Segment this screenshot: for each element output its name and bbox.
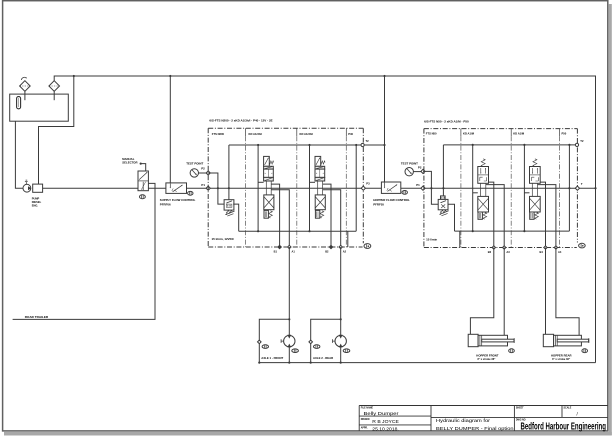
- svg-text:APPR.: APPR.: [361, 427, 368, 430]
- svg-text:AXLE 2 - REAR: AXLE 2 - REAR: [313, 356, 333, 360]
- relief valve block2 inlet: [423, 171, 438, 204]
- tank reservoir: [10, 94, 69, 121]
- hydraulic cylinder hopper rear: [543, 334, 553, 346]
- svg-text:A1: A1: [292, 249, 296, 253]
- svg-text:B2: B2: [325, 249, 329, 253]
- wire block1 return collector: [239, 230, 357, 232]
- svg-text:KD A1/M: KD A1/M: [463, 132, 475, 136]
- title block frame: [359, 406, 608, 431]
- svg-text:P50: P50: [562, 132, 567, 136]
- hydraulic motor M2: [335, 335, 346, 346]
- svg-text:T2: T2: [580, 139, 584, 143]
- wire KD valve 2 work port stubs: [323, 184, 331, 247]
- svg-text:SHEET: SHEET: [516, 408, 524, 410]
- relief valve block1: [224, 200, 234, 210]
- wire block1 T2 drop to return collector: [355, 145, 357, 231]
- check valve motor 2: [309, 340, 313, 344]
- svg-text:R B JOYCE: R B JOYCE: [372, 419, 399, 425]
- svg-text:B3: B3: [488, 250, 492, 254]
- port tag B motor 2: [343, 349, 350, 353]
- svg-text:6/S-FTS N50 - 2 xKD A1/M - P5: 6/S-FTS N50 - 2 xKD A1/M - P50: [424, 119, 469, 123]
- port P1 block2: [421, 186, 425, 190]
- wire KD valve 3 work port stubs: [486, 182, 494, 247]
- solenoid valve KD1 block1: [264, 156, 270, 166]
- port tag cylinder 2: [582, 349, 588, 353]
- svg-text:SCALE: SCALE: [564, 407, 572, 410]
- svg-text:HOPPER FRONT: HOPPER FRONT: [476, 353, 499, 357]
- svg-text:3" x stroke 36": 3" x stroke 36": [552, 357, 571, 361]
- relief valve block1 pilot line: [228, 145, 230, 200]
- hydraulic cylinder hopper front: [468, 334, 478, 346]
- wire bottom return line: [259, 362, 595, 364]
- valve block 1 dividers: [244, 128, 246, 136]
- svg-text:B1: B1: [274, 249, 278, 253]
- svg-text:B4: B4: [540, 250, 544, 254]
- wire KD valve 1 work port stubs: [271, 184, 279, 247]
- wire cylinder 1 cap feed B3: [470, 248, 493, 335]
- wire block2 internal T2 line: [443, 144, 575, 146]
- wire axle motor 1 feed: [288, 247, 290, 335]
- manual selector drain cap: [140, 195, 146, 199]
- svg-text:FTS N200: FTS N200: [212, 132, 225, 136]
- valve block 1 boundary 6/S-FTS N200: [208, 127, 363, 129]
- relief valve block2: [441, 196, 446, 200]
- svg-text:AXLE 1 - FRONT: AXLE 1 - FRONT: [261, 356, 283, 360]
- valve block 2 dividers: [460, 129, 462, 137]
- svg-text:ENG.: ENG.: [32, 203, 39, 207]
- hopper flow control cap: [402, 191, 407, 195]
- wire KD valve 4 left rail: [523, 145, 525, 231]
- svg-text:A3: A3: [506, 250, 510, 254]
- svg-text:P3: P3: [366, 182, 370, 186]
- svg-text:BELLY DUMPER - Final option: BELLY DUMPER - Final option: [436, 426, 514, 432]
- wire return drop to pump unit: [39, 76, 74, 184]
- pump P1 diesel driven: [23, 184, 31, 192]
- svg-text:KD A1/M: KD A1/M: [513, 132, 525, 136]
- svg-text:T2: T2: [366, 139, 370, 143]
- svg-text:SUPPLY FLOW CONTROL: SUPPLY FLOW CONTROL: [160, 198, 196, 202]
- svg-text:P1: P1: [416, 183, 420, 187]
- relief valve block1 inlet: [208, 173, 224, 204]
- test point gauge P2 block1: [190, 169, 198, 177]
- wire KD valve 1 left rail: [257, 145, 259, 231]
- wire block1 drain drop: [347, 231, 349, 247]
- port P1 block1: [206, 186, 210, 190]
- relief valve block1 drain: [233, 204, 239, 231]
- wire cylinder 2 rod feed A4: [556, 248, 579, 336]
- hopper flow control PFRF05: [381, 182, 400, 193]
- port T2 block1: [361, 143, 364, 146]
- port P2 block2: [421, 169, 425, 173]
- port tag A motor 2: [314, 345, 320, 349]
- svg-text:Belly Dumper: Belly Dumper: [364, 411, 399, 417]
- wire block2 drain drop: [459, 231, 461, 247]
- wire supply flow control bypass riser: [169, 76, 171, 183]
- svg-text:DIESEL: DIESEL: [32, 200, 42, 204]
- test point gauge P2 block2: [405, 168, 413, 176]
- svg-text:DRAWN: DRAWN: [361, 418, 370, 421]
- filter breather F1: [20, 81, 31, 92]
- wire KD valve 4 work port stubs: [538, 182, 546, 247]
- drain cap block1 corner: [364, 244, 371, 249]
- port tag A motor 1: [262, 345, 268, 349]
- manual selector lever: [141, 164, 146, 171]
- supply flow control cap: [188, 191, 193, 195]
- port T2 block2: [575, 143, 578, 146]
- svg-text:FTS N50: FTS N50: [426, 132, 437, 136]
- valve KD4 block2: [533, 159, 537, 167]
- svg-text:TEST POINT: TEST POINT: [186, 161, 203, 165]
- svg-text:P2: P2: [201, 166, 205, 170]
- svg-text:KD A1/3h/I: KD A1/3h/I: [249, 132, 263, 136]
- port P3 block1: [361, 186, 365, 190]
- svg-text:TEST POINT: TEST POINT: [401, 161, 418, 165]
- wire KD valve 2 left rail: [309, 145, 311, 231]
- svg-text:FILE NAME: FILE NAME: [361, 407, 374, 410]
- svg-text:3" x stroke 36": 3" x stroke 36": [477, 357, 496, 361]
- wire main pressure line: [43, 187, 578, 189]
- wire block1 internal T2 line: [229, 144, 361, 146]
- svg-text:25.10.2018.: 25.10.2018.: [372, 426, 399, 432]
- wire block2 T2 drop: [568, 145, 570, 231]
- svg-text:HOPPER FLOW CONTROL: HOPPER FLOW CONTROL: [373, 198, 410, 202]
- svg-text:Bedford Harbour Engineering: Bedford Harbour Engineering: [521, 422, 607, 433]
- wire trailer boundary ROAD TRAILER: [13, 183, 155, 319]
- hydraulic motor M1: [284, 335, 295, 346]
- relief valve block2 pilot line: [442, 145, 444, 196]
- wire cylinder 1 rod feed A3: [503, 248, 505, 336]
- relief valve block2 drain: [448, 204, 454, 231]
- svg-text:KD A1/3h/I: KD A1/3h/I: [300, 132, 314, 136]
- tank level gauge: [17, 97, 21, 109]
- pump gearbox: [33, 184, 43, 192]
- valve KD3 block2: [481, 159, 485, 167]
- supply flow control PFRF06: [166, 183, 187, 194]
- svg-text:PFRF05: PFRF05: [373, 203, 384, 207]
- svg-text:P1: P1: [201, 183, 205, 187]
- ports B1 A1 B2 A2: [278, 245, 281, 248]
- svg-text:6/S-FTS N200 - 2 xKD A1/3h/I: 6/S-FTS N200 - 2 xKD A1/3h/I - P40 - 12V…: [209, 119, 272, 123]
- wire tank suction to pump: [15, 121, 23, 188]
- svg-text:P2: P2: [418, 166, 422, 170]
- svg-text:Hydraulic diagram for: Hydraulic diagram for: [436, 418, 490, 424]
- svg-text:HOPPER REAR: HOPPER REAR: [551, 353, 572, 357]
- svg-text:P40: P40: [348, 132, 353, 136]
- svg-text:SELECTOR: SELECTOR: [122, 160, 137, 164]
- svg-text:PFRF06: PFRF06: [160, 203, 171, 207]
- wire top return line T: [54, 76, 595, 363]
- manual selector valve: [138, 171, 148, 191]
- svg-text:PUMP: PUMP: [32, 197, 40, 201]
- wire KD valve 3 left rail: [472, 145, 474, 231]
- port tag B motor 1: [292, 349, 299, 353]
- drain cap block2 corner: [579, 243, 586, 248]
- svg-text:15 l/min: 15 l/min: [426, 238, 437, 242]
- svg-text:A4: A4: [558, 250, 562, 254]
- port T block2: [575, 186, 579, 190]
- check valve motor 1: [258, 340, 262, 344]
- svg-text:A2: A2: [343, 249, 347, 253]
- return filter F2: [49, 81, 60, 92]
- valve block 2 boundary 6/S-FTS N50: [424, 128, 578, 130]
- solenoid valve KD2 block1: [315, 156, 321, 166]
- port tag cylinder 1: [509, 349, 515, 353]
- wire axle motor 2 feed: [340, 247, 342, 335]
- port P2 block1: [206, 171, 210, 175]
- svg-text:ROAD TRAILER: ROAD TRAILER: [25, 315, 49, 319]
- svg-text:15 l/min, 12VDC: 15 l/min, 12VDC: [212, 237, 235, 241]
- wire block2 return collector: [455, 230, 570, 232]
- wire cylinder 2 cap feed B4: [545, 248, 547, 335]
- ports B3 A3 B4 A4: [492, 246, 495, 249]
